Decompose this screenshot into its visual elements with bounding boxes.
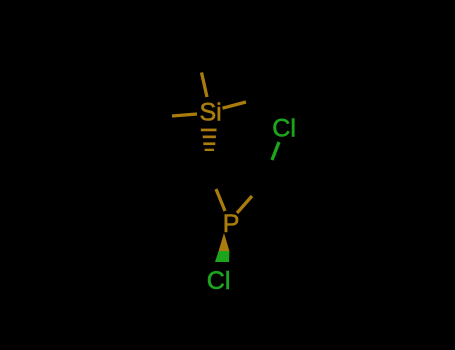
svg-text:P: P: [223, 210, 240, 238]
svg-text:Cl: Cl: [272, 114, 296, 142]
svg-text:Cl: Cl: [207, 267, 231, 295]
svg-text:Si: Si: [200, 98, 222, 126]
